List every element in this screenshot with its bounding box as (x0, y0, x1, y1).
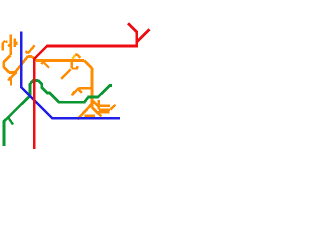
orange small vertical below (10, 77, 12, 86)
orange trunk tick arrow barb (41, 61, 43, 64)
orange fan horizontal y109.6 (99, 108, 110, 110)
orange zigzag diag SE (4, 67, 10, 73)
orange shaft SW below (8, 72, 16, 80)
orange bump dash (75, 54, 78, 56)
orange floating checkmark stroke 2 (25, 51, 28, 53)
orange main vertical (91, 68, 94, 107)
orange tick NW on V1 (8, 44, 11, 47)
red trunk polyline (34, 23, 136, 149)
orange bump descender (78, 55, 80, 58)
orange connector NE to trunk (15, 56, 28, 72)
orange stub right of V2 (15, 41, 17, 45)
orange west vertical V1 (9, 35, 12, 56)
green east trunk polyline (38, 81, 112, 103)
orange main elbow diag SE (92, 107, 97, 112)
orange zigzag diag SW (4, 55, 11, 62)
green west trunk polyline (4, 81, 39, 147)
orange line: west tree vertical V1 (3, 35, 116, 120)
orange trunk horizontal (36, 59, 84, 62)
orange short vertical far west (2, 42, 4, 50)
orange fan bottom dash (84, 115, 95, 117)
orange fan tick SE low (97, 112, 102, 116)
orange long arrow diag SW to blue line (78, 102, 94, 120)
orange fan stub vertical (98, 100, 100, 110)
orange zigzag short vertical (2, 62, 5, 67)
orange mid cluster vertical (71, 62, 73, 69)
orange mid cluster horizontal (72, 67, 78, 69)
green line (4, 81, 112, 147)
orange mid cluster tick up (76, 66, 78, 68)
orange trunk tick arrow shaft (43, 61, 49, 68)
orange trunk west horizontal (28, 55, 32, 58)
orange trunk diag SE (84, 61, 92, 69)
blue trunk polyline (21, 31, 120, 118)
green tick on SW diagonal (8, 117, 14, 125)
orange shelf diag SW (72, 88, 79, 95)
orange fan horizontal y112.2 (97, 111, 110, 114)
orange nub NE on far west vertical (3, 41, 5, 43)
orange shelf barb (72, 92, 75, 96)
gold bump diag NE (72, 55, 75, 59)
orange trunk step diag SE (32, 56, 37, 60)
orange shelf horizontal y88 (78, 87, 91, 90)
orange fan riser NE (110, 105, 115, 110)
orange small dash left of V1 (5, 40, 7, 43)
red line (34, 23, 149, 149)
orange floating checkmark stroke 1 (28, 45, 35, 53)
orange horizontal y72.5 (9, 71, 17, 74)
orange twig vertical V2 (13, 39, 15, 47)
blue line (21, 31, 120, 118)
orange shelf tick SE (79, 90, 82, 93)
red right branch (137, 29, 150, 42)
orange barb (8, 77, 11, 81)
orange fan dash y105.7 (99, 104, 110, 106)
orange mid cluster diag SW (61, 69, 71, 79)
orange fan tick diag SE (92, 100, 99, 107)
